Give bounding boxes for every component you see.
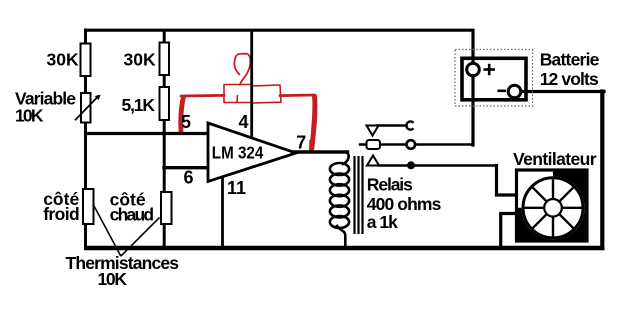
svg-text:6: 6 — [184, 168, 194, 188]
svg-text:400 ohms: 400 ohms — [367, 194, 442, 214]
svg-text:10K: 10K — [98, 269, 128, 289]
svg-text:4: 4 — [239, 112, 249, 132]
svg-text:LM 324: LM 324 — [212, 142, 264, 162]
svg-text:chaud: chaud — [110, 205, 155, 225]
svg-text:5: 5 — [181, 112, 191, 132]
svg-text:12 volts: 12 volts — [540, 69, 599, 89]
svg-text:Ventilateur: Ventilateur — [513, 149, 597, 169]
svg-text:a 1k: a 1k — [367, 212, 398, 232]
svg-text:5,1K: 5,1K — [122, 95, 156, 115]
svg-text:Relais: Relais — [367, 175, 413, 195]
svg-text:Batterie: Batterie — [540, 50, 600, 70]
svg-text:froid: froid — [43, 204, 79, 224]
svg-text:10K: 10K — [15, 106, 44, 126]
svg-text:7: 7 — [296, 132, 306, 152]
svg-text:11: 11 — [227, 178, 246, 198]
svg-text:30K: 30K — [124, 50, 156, 70]
svg-text:30K: 30K — [47, 50, 79, 70]
